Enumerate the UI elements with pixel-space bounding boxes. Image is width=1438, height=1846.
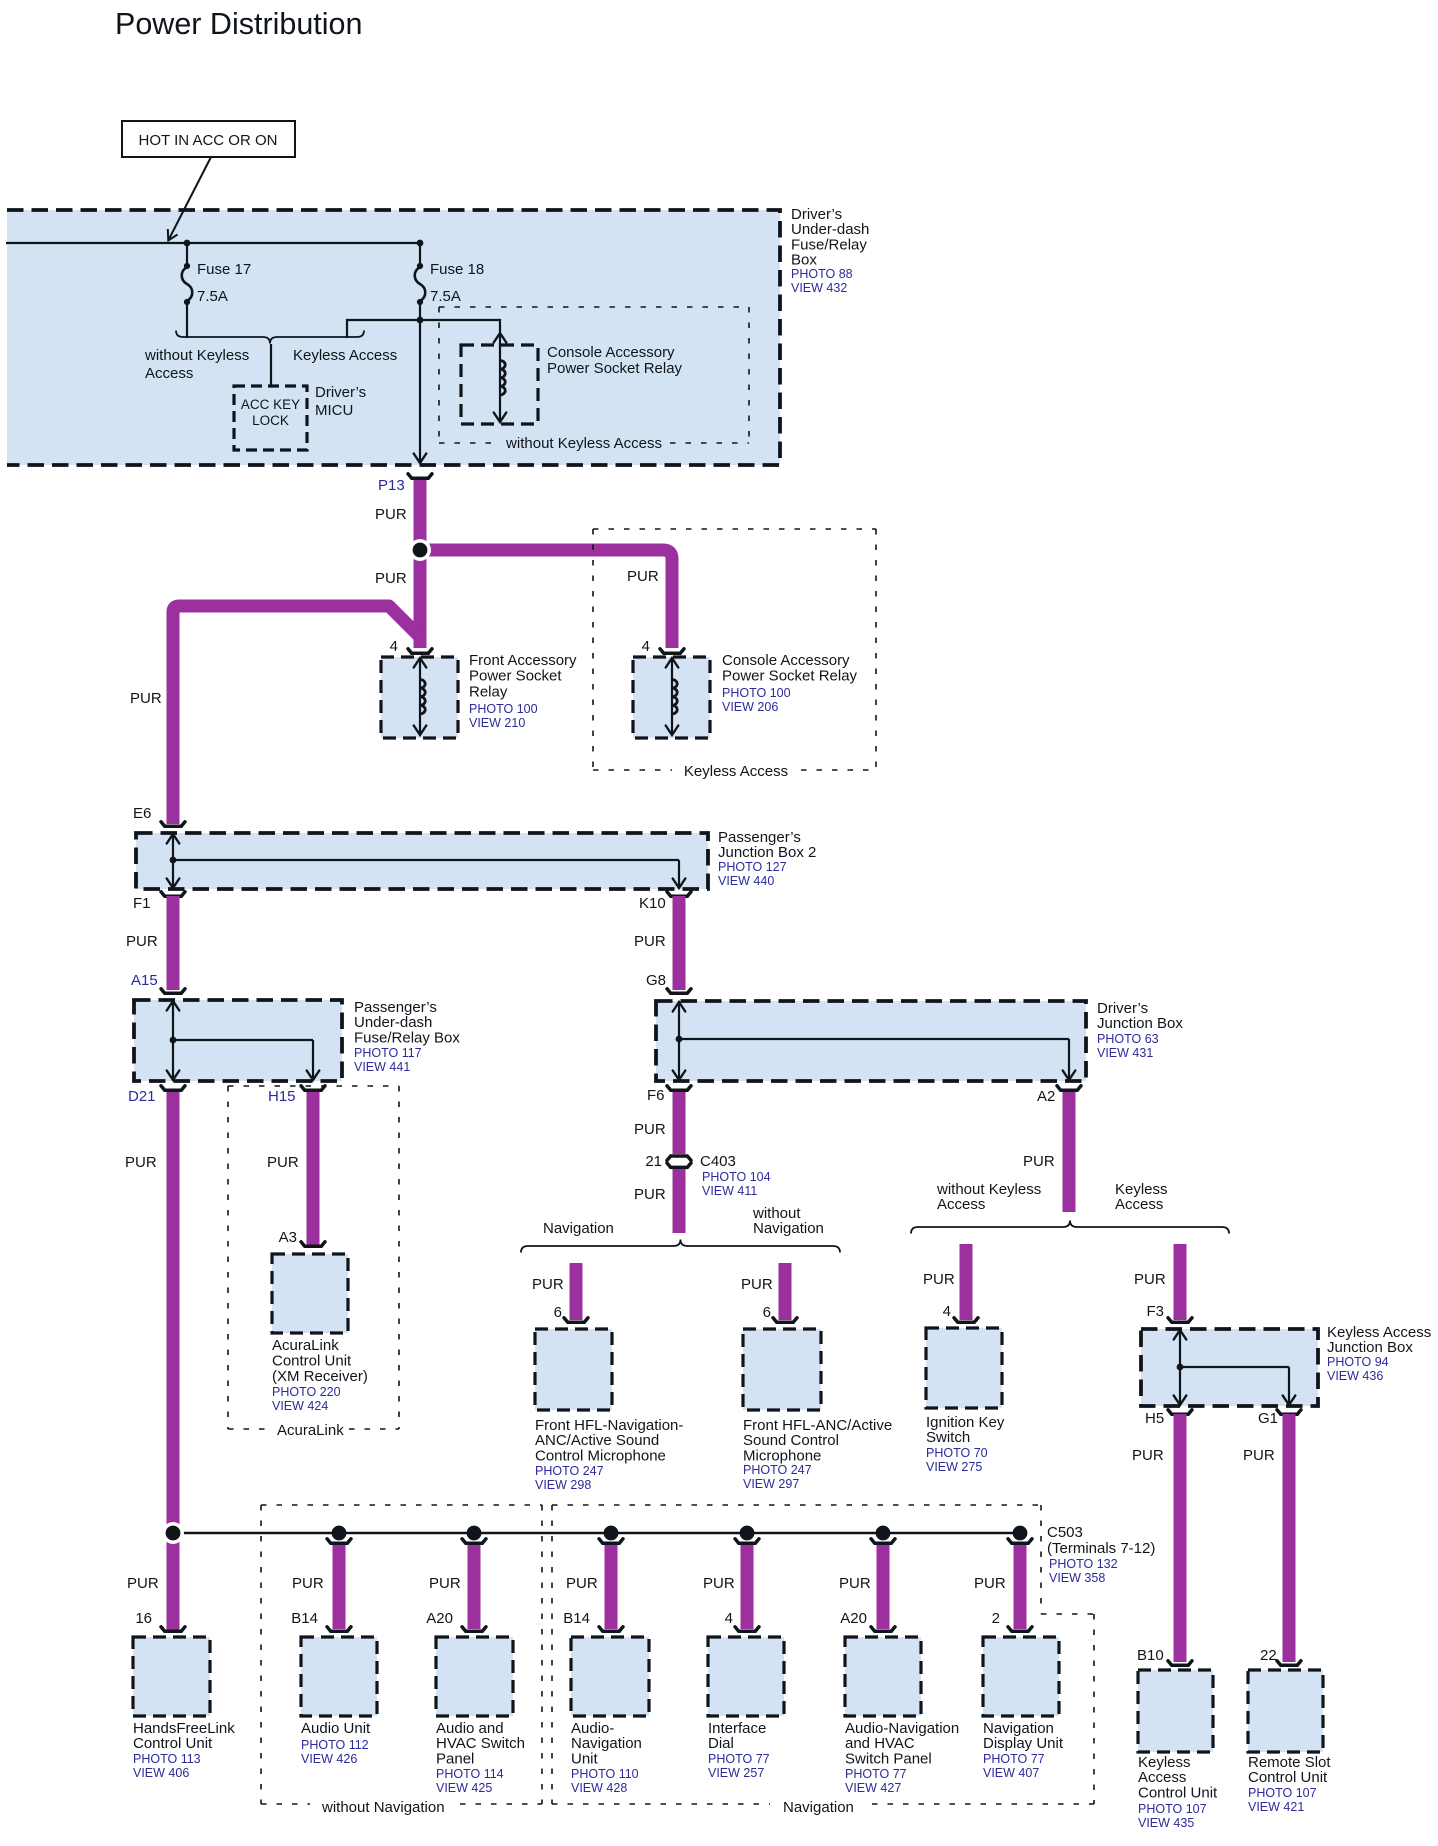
svg-text:Junction Box: Junction Box (1327, 1339, 1413, 1356)
svg-text:PUR: PUR (532, 1276, 564, 1293)
svg-text:H5: H5 (1145, 1410, 1164, 1427)
svg-text:Display Unit: Display Unit (983, 1735, 1064, 1752)
wire PUR to keyless access junction box (1174, 1244, 1187, 1320)
svg-text:Switch: Switch (926, 1429, 970, 1446)
svg-text:PHOTO 247: PHOTO 247 (535, 1464, 604, 1478)
svg-text:Keyless Access: Keyless Access (293, 347, 397, 364)
wire C503 bus (173, 1532, 1020, 1534)
svg-text:PUR: PUR (566, 1575, 598, 1592)
svg-text:without Keyless Access: without Keyless Access (505, 435, 662, 452)
svg-text:PUR: PUR (1243, 1447, 1275, 1464)
box ACC KEY LOCK (Driver's MICU) (234, 386, 307, 450)
svg-text:VIEW 358: VIEW 358 (1049, 1571, 1105, 1585)
svg-text:LOCK: LOCK (252, 413, 289, 428)
box Remote Slot Control Unit (1248, 1670, 1323, 1752)
svg-text:6: 6 (554, 1304, 562, 1321)
svg-text:Control Unit: Control Unit (133, 1735, 213, 1752)
svg-text:PUR: PUR (375, 570, 407, 587)
svg-text:Dial: Dial (708, 1735, 734, 1752)
svg-text:Front Accessory: Front Accessory (469, 652, 577, 669)
svg-text:B14: B14 (563, 1610, 590, 1627)
svg-text:Console Accessory: Console Accessory (722, 652, 850, 669)
svg-text:PUR: PUR (267, 1154, 299, 1171)
svg-text:PUR: PUR (125, 1154, 157, 1171)
svg-text:VIEW 298: VIEW 298 (535, 1478, 591, 1492)
svg-text:PUR: PUR (634, 1186, 666, 1203)
svg-text:PUR: PUR (130, 690, 162, 707)
wire PUR C403 down (673, 1169, 686, 1233)
group box Keyless Access (console relay) (593, 528, 876, 530)
group box without Keyless Access (console relay) (439, 306, 749, 308)
svg-text:Fuse 17: Fuse 17 (197, 261, 251, 278)
svg-text:Power Socket Relay: Power Socket Relay (722, 668, 858, 685)
svg-text:PHOTO 100: PHOTO 100 (469, 702, 538, 716)
svg-text:B10: B10 (1137, 1647, 1164, 1664)
box Interface Dial (708, 1637, 784, 1716)
svg-text:Junction Box 2: Junction Box 2 (718, 844, 816, 861)
svg-text:VIEW 427: VIEW 427 (845, 1781, 901, 1795)
svg-text:Control Unit: Control Unit (1248, 1769, 1328, 1786)
svg-text:4: 4 (943, 1303, 951, 1320)
arrow from HOT label to feed wire (169, 157, 211, 239)
svg-text:VIEW 210: VIEW 210 (469, 716, 525, 730)
box Front HFL-Navigation-ANC Microphone (535, 1329, 612, 1410)
svg-text:PHOTO 220: PHOTO 220 (272, 1385, 341, 1399)
svg-text:PUR: PUR (126, 933, 158, 950)
svg-text:PUR: PUR (634, 1121, 666, 1138)
wire PUR H5 to keyless access control unit (1174, 1414, 1187, 1662)
node C503 navigation display tap (1013, 1526, 1028, 1541)
box Keyless Access Control Unit (1138, 1670, 1213, 1752)
svg-text:VIEW 407: VIEW 407 (983, 1766, 1039, 1780)
svg-text:Control Microphone: Control Microphone (535, 1447, 666, 1464)
svg-text:VIEW 435: VIEW 435 (1138, 1816, 1194, 1830)
svg-text:Fuse 18: Fuse 18 (430, 261, 484, 278)
svg-text:VIEW 426: VIEW 426 (301, 1752, 357, 1766)
wire PUR to audio unit (333, 1543, 346, 1629)
svg-text:Switch Panel: Switch Panel (845, 1750, 932, 1767)
svg-text:A20: A20 (426, 1610, 453, 1627)
box Audio-Navigation Unit (571, 1637, 649, 1716)
group box AcuraLink (228, 1085, 399, 1087)
box Keyless Access Junction Box (1141, 1329, 1318, 1406)
svg-text:Access: Access (1115, 1196, 1163, 1213)
node C503 audio unit tap (332, 1526, 347, 1541)
wire PUR from P13 (414, 480, 427, 556)
svg-text:VIEW 421: VIEW 421 (1248, 1800, 1304, 1814)
svg-text:C403: C403 (700, 1153, 736, 1170)
svg-text:PUR: PUR (923, 1271, 955, 1288)
svg-text:4: 4 (390, 638, 398, 655)
svg-text:D21: D21 (128, 1088, 156, 1105)
svg-text:A15: A15 (131, 972, 158, 989)
node fuse17 tap (184, 240, 191, 247)
node C503 audio-navigation tap (604, 1526, 619, 1541)
node fuse18 tap (417, 240, 424, 247)
svg-text:VIEW 431: VIEW 431 (1097, 1046, 1153, 1060)
box HandsFreeLink Control Unit (133, 1637, 210, 1716)
box AcuraLink Control Unit (272, 1254, 348, 1333)
svg-text:G8: G8 (646, 972, 666, 989)
svg-text:G1: G1 (1258, 1410, 1278, 1427)
group box Navigation (552, 1504, 1041, 1506)
box Audio-Navigation and HVAC Switch Panel (845, 1637, 921, 1716)
relay Front Accessory Power Socket Relay (381, 657, 458, 738)
svg-text:PUR: PUR (703, 1575, 735, 1592)
svg-text:PUR: PUR (127, 1575, 159, 1592)
svg-text:PHOTO 132: PHOTO 132 (1049, 1557, 1118, 1571)
svg-text:VIEW 411: VIEW 411 (702, 1184, 757, 1198)
box Front HFL-ANC Microphone (743, 1329, 821, 1410)
box Passenger's Under-dash Fuse/Relay Box (134, 1000, 342, 1081)
wire PUR G1 to remote slot control unit (1283, 1414, 1296, 1662)
svg-text:PHOTO 77: PHOTO 77 (708, 1752, 770, 1766)
svg-text:Junction Box: Junction Box (1097, 1015, 1183, 1032)
svg-text:16: 16 (135, 1610, 152, 1627)
svg-text:PHOTO 104: PHOTO 104 (702, 1170, 771, 1184)
svg-text:Relay: Relay (469, 683, 508, 700)
svg-text:PHOTO 63: PHOTO 63 (1097, 1032, 1159, 1046)
svg-text:PUR: PUR (839, 1575, 871, 1592)
svg-text:(Terminals 7-12): (Terminals 7-12) (1047, 1540, 1155, 1557)
wire PUR to navigation microphone (570, 1263, 583, 1320)
wire PUR junction to front relay (414, 550, 427, 648)
box Driver's Under-dash Fuse/Relay Box (7, 210, 780, 465)
node C503 audio-navigation-HVAC tap (876, 1526, 891, 1541)
node C503 interface dial tap (740, 1526, 755, 1541)
svg-text:VIEW 206: VIEW 206 (722, 700, 778, 714)
svg-text:VIEW 275: VIEW 275 (926, 1460, 982, 1474)
wire inside PJB2 (172, 834, 174, 888)
svg-text:E6: E6 (133, 805, 151, 822)
svg-text:VIEW 406: VIEW 406 (133, 1766, 189, 1780)
svg-text:PUR: PUR (1134, 1271, 1166, 1288)
svg-text:C503: C503 (1047, 1524, 1083, 1541)
wire PUR to navigation display unit (1014, 1543, 1027, 1629)
svg-text:VIEW 425: VIEW 425 (436, 1781, 492, 1795)
wire fuse18 junction to console relay coil (420, 320, 500, 332)
wire PUR K10 to G8 (673, 896, 686, 990)
svg-text:PUR: PUR (292, 1575, 324, 1592)
wire brace to ACC KEY LOCK (270, 344, 272, 386)
svg-text:PHOTO 117: PHOTO 117 (354, 1046, 422, 1060)
box Ignition Key Switch (926, 1328, 1002, 1408)
svg-text:VIEW 257: VIEW 257 (708, 1766, 764, 1780)
svg-text:22: 22 (1260, 1647, 1277, 1664)
svg-text:PUR: PUR (634, 933, 666, 950)
svg-text:Panel: Panel (436, 1750, 474, 1767)
wire fuse18 to P13 (419, 302, 421, 462)
svg-text:PHOTO 70: PHOTO 70 (926, 1446, 988, 1460)
svg-text:PHOTO 127: PHOTO 127 (718, 860, 787, 874)
svg-text:Access: Access (937, 1196, 985, 1213)
svg-text:PUR: PUR (1023, 1153, 1055, 1170)
svg-text:P13: P13 (378, 477, 405, 494)
svg-text:VIEW 436: VIEW 436 (1327, 1369, 1383, 1383)
svg-text:PHOTO 113: PHOTO 113 (133, 1752, 201, 1766)
wire PUR F1 to A15 (167, 896, 180, 990)
svg-text:VIEW 297: VIEW 297 (743, 1477, 799, 1491)
svg-text:HOT IN ACC OR ON: HOT IN ACC OR ON (139, 132, 278, 149)
box Audio and HVAC Switch Panel (436, 1637, 513, 1716)
svg-text:VIEW 441: VIEW 441 (354, 1060, 410, 1074)
svg-text:F1: F1 (133, 895, 151, 912)
node C503 HandsFreeLink tap (162, 1522, 184, 1544)
svg-text:B14: B14 (291, 1610, 318, 1627)
group box without Navigation (261, 1504, 542, 1506)
svg-text:(XM Receiver): (XM Receiver) (272, 1368, 368, 1385)
svg-text:7.5A: 7.5A (430, 288, 461, 305)
svg-text:Power Socket: Power Socket (469, 668, 562, 685)
wire PUR to microphone without navigation (779, 1263, 792, 1320)
svg-text:PHOTO 77: PHOTO 77 (983, 1752, 1045, 1766)
wire PUR to audio and HVAC switch panel (468, 1543, 481, 1629)
svg-text:PHOTO 110: PHOTO 110 (571, 1767, 639, 1781)
wire PUR to audio-navigation unit (605, 1543, 618, 1629)
svg-text:Audio Unit: Audio Unit (301, 1720, 371, 1737)
svg-text:without Keyless: without Keyless (144, 347, 249, 364)
wire PUR A2 down (1063, 1092, 1076, 1212)
svg-text:Driver’s: Driver’s (315, 384, 366, 401)
wire PUR to interface dial (741, 1543, 754, 1629)
svg-text:VIEW 424: VIEW 424 (272, 1399, 328, 1413)
brace without Keyless / Keyless Access (911, 1221, 1229, 1234)
box Passenger's Junction Box 2 (136, 833, 708, 889)
svg-text:PHOTO 247: PHOTO 247 (743, 1463, 812, 1477)
svg-text:H15: H15 (268, 1088, 296, 1105)
wire PUR to ignition key switch (960, 1244, 973, 1320)
svg-text:PUR: PUR (741, 1276, 773, 1293)
box Audio Unit (301, 1637, 377, 1716)
svg-text:4: 4 (725, 1610, 733, 1627)
svg-text:Unit: Unit (571, 1750, 599, 1767)
svg-text:PUR: PUR (429, 1575, 461, 1592)
svg-text:Fuse/Relay Box: Fuse/Relay Box (354, 1029, 460, 1046)
svg-text:ACC KEY: ACC KEY (241, 397, 300, 412)
svg-text:PHOTO 107: PHOTO 107 (1248, 1786, 1317, 1800)
svg-text:without Navigation: without Navigation (321, 1799, 445, 1816)
svg-text:PHOTO 112: PHOTO 112 (301, 1738, 369, 1752)
wire PUR branch to E6 (173, 606, 420, 824)
svg-text:Keyless Access: Keyless Access (684, 763, 788, 780)
svg-text:F3: F3 (1146, 1303, 1164, 1320)
wire PUR branch to console relay (420, 550, 672, 648)
label HOT IN ACC OR ON (122, 121, 295, 157)
node C503 audio-HVAC tap (467, 1526, 482, 1541)
svg-text:PHOTO 77: PHOTO 77 (845, 1767, 907, 1781)
relay Console Accessory Power Socket Relay (633, 657, 710, 738)
svg-text:Microphone: Microphone (743, 1447, 821, 1464)
node PUR junction (409, 539, 431, 561)
svg-text:PHOTO 100: PHOTO 100 (722, 686, 791, 700)
svg-text:Access: Access (145, 365, 193, 382)
svg-text:PHOTO 88: PHOTO 88 (791, 267, 853, 281)
wire PUR H15 to A3 (307, 1092, 320, 1245)
svg-text:MICU: MICU (315, 402, 353, 419)
svg-text:VIEW 440: VIEW 440 (718, 874, 774, 888)
svg-text:Console Accessory: Console Accessory (547, 344, 675, 361)
box Driver's Junction Box (656, 1001, 1086, 1081)
svg-text:2: 2 (992, 1610, 1000, 1627)
wire inside DJB (678, 1002, 680, 1080)
svg-text:A3: A3 (279, 1229, 297, 1246)
svg-text:6: 6 (763, 1304, 771, 1321)
svg-text:VIEW 428: VIEW 428 (571, 1781, 627, 1795)
svg-text:PUR: PUR (1132, 1447, 1164, 1464)
brace without/with Keyless Access (176, 331, 364, 344)
svg-text:Navigation: Navigation (783, 1799, 854, 1816)
svg-text:PUR: PUR (375, 506, 407, 523)
fuse Fuse 17 7.5A (186, 243, 188, 266)
wire PUR D21 down to C503 bus (167, 1092, 180, 1632)
wire Keyless Access branch to fuse18 leg (347, 320, 420, 338)
wire inside PUFRB (172, 1001, 174, 1080)
svg-text:A2: A2 (1037, 1088, 1055, 1105)
svg-text:PUR: PUR (627, 568, 659, 585)
svg-text:Navigation: Navigation (543, 1220, 614, 1237)
wire feed from HOT (6, 242, 420, 244)
node fuse18 leg junction (417, 317, 424, 324)
svg-text:21: 21 (645, 1153, 662, 1170)
svg-text:PUR: PUR (974, 1575, 1006, 1592)
wire inside KAJB (1179, 1330, 1181, 1405)
svg-text:K10: K10 (639, 895, 666, 912)
svg-text:Navigation: Navigation (753, 1220, 824, 1237)
svg-text:7.5A: 7.5A (197, 288, 228, 305)
fuse Fuse 18 7.5A (419, 243, 421, 266)
svg-text:PHOTO 114: PHOTO 114 (436, 1767, 504, 1781)
wire PUR F6 to C403 (673, 1092, 686, 1154)
svg-text:F6: F6 (647, 1087, 665, 1104)
brace Navigation / without Navigation (521, 1240, 840, 1253)
svg-text:VIEW 432: VIEW 432 (791, 281, 847, 295)
wire PUR to audio-navigation and HVAC switch panel (877, 1543, 890, 1629)
svg-text:A20: A20 (840, 1610, 867, 1627)
svg-text:Power Distribution: Power Distribution (115, 7, 363, 41)
box Navigation Display Unit (983, 1637, 1059, 1716)
svg-text:PHOTO 94: PHOTO 94 (1327, 1355, 1389, 1369)
svg-text:AcuraLink: AcuraLink (277, 1422, 344, 1439)
svg-text:4: 4 (642, 638, 650, 655)
svg-text:PHOTO 107: PHOTO 107 (1138, 1802, 1207, 1816)
svg-text:Power Socket Relay: Power Socket Relay (547, 360, 683, 377)
svg-text:Control Unit: Control Unit (1138, 1784, 1218, 1801)
relay Console Accessory Power Socket Relay (in fuse box) (461, 345, 538, 424)
